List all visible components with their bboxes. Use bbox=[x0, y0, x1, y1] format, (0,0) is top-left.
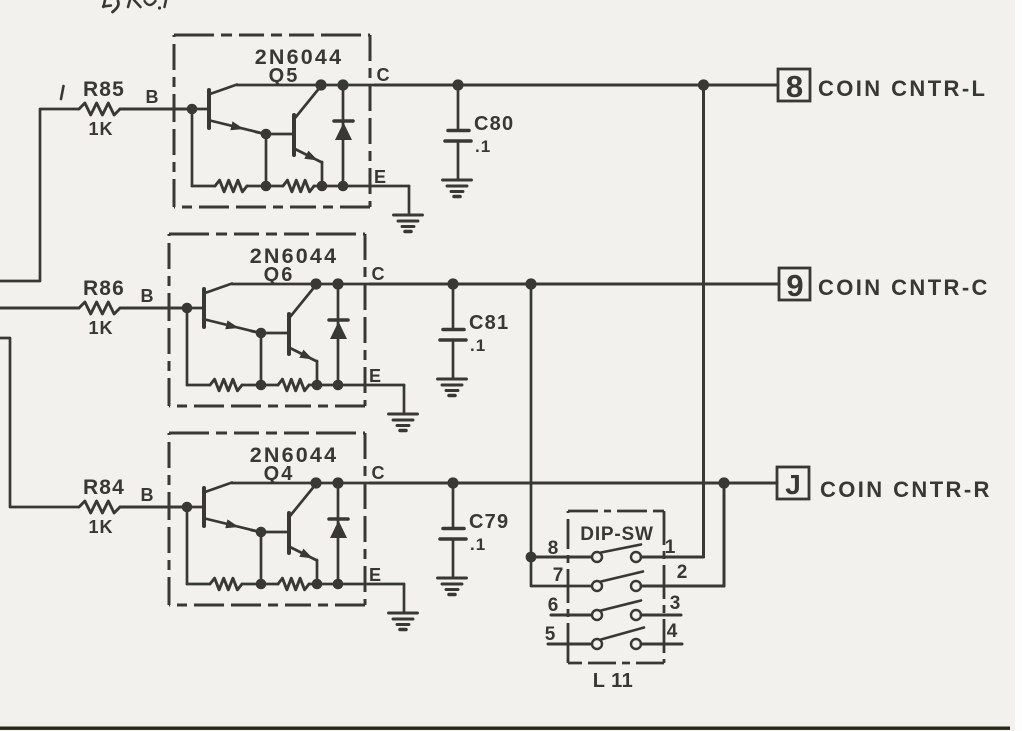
switch lever row pin 7-2 bbox=[601, 572, 643, 582]
diode internal to Q6 (cathode to collector) bbox=[329, 284, 348, 385]
switch lever row pin 5-4 bbox=[601, 628, 644, 640]
switch lever row pin 6-3 bbox=[601, 601, 641, 611]
capacitor C80 bbox=[445, 85, 471, 179]
terminal box 9 bbox=[779, 268, 810, 300]
svg-text:5: 5 bbox=[545, 624, 556, 645]
svg-text:9: 9 bbox=[786, 268, 803, 303]
node internal junction of Q6 bbox=[256, 328, 267, 339]
node diode top on C rail of Q6 bbox=[332, 278, 343, 289]
ground symbol at emitter of Q4 bbox=[389, 613, 418, 630]
svg-text:C: C bbox=[377, 65, 390, 85]
switch pole contact row pin 5 bbox=[592, 639, 602, 649]
node junction DIP pin 8 wire bbox=[526, 552, 537, 563]
wire from B node down to internal emitter rail of Q4 bbox=[186, 507, 189, 584]
svg-text:2: 2 bbox=[677, 562, 688, 583]
wire Q5 collector rail to terminal 8 bbox=[375, 84, 778, 87]
svg-text:.1: .1 bbox=[475, 137, 491, 156]
wire DIP switch pin 6 lead bbox=[551, 614, 592, 617]
node diode top on C rail of Q4 bbox=[332, 477, 343, 488]
node junction of COIN CNTR-L rail with DIP pin 1 riser bbox=[698, 79, 709, 90]
transistor Q6 first stage (input BJT) bbox=[204, 284, 258, 333]
node second emitter on E rail of Q5 bbox=[317, 181, 328, 192]
darlington package outline Q5 (dash-dot box) bbox=[174, 35, 370, 207]
node second collector on C rail of Q6 bbox=[310, 278, 321, 289]
svg-text:4: 4 bbox=[667, 621, 678, 642]
svg-text:COIN CNTR-R: COIN CNTR-R bbox=[820, 477, 992, 502]
schematic sheet bottom border line bbox=[0, 727, 1010, 730]
wire DIP switch pin 3 lead bbox=[641, 614, 681, 617]
wire internal collector rail of Q6 bbox=[232, 283, 370, 286]
node on emitter rail below junction of Q5 bbox=[261, 181, 272, 192]
svg-text:7: 7 bbox=[553, 565, 564, 586]
wire R84 to base node of Q4 bbox=[120, 506, 187, 509]
transistor Q5 first stage (input BJT) bbox=[209, 85, 263, 134]
switch pole contact row pin 8 bbox=[592, 552, 602, 562]
wire E pin down to ground of Q4 bbox=[403, 584, 406, 612]
node diode top on C rail of Q5 bbox=[337, 79, 348, 90]
DIP switch L11 outline (dash-dot box) bbox=[568, 511, 664, 663]
wire emitter rail to E pin exit of Q6 bbox=[309, 384, 404, 387]
wire input net to R86 (from left edge) bbox=[0, 307, 79, 310]
ground symbol below capacitor C79 bbox=[438, 578, 467, 595]
svg-text:1: 1 bbox=[665, 537, 676, 558]
node B junction of Q6 bbox=[182, 303, 193, 314]
wire internal emitter rail left segment of Q5 bbox=[192, 185, 215, 188]
node second collector on C rail of Q4 bbox=[310, 477, 321, 488]
wire riser from DIP switch pin 2 up to COIN CNTR-R net bbox=[723, 483, 726, 586]
wire internal emitter rail left segment of Q4 bbox=[187, 583, 210, 586]
capacitor C81 top connection node bbox=[447, 278, 458, 289]
svg-text:.1: .1 bbox=[470, 336, 486, 355]
capacitor C80 top connection node bbox=[452, 79, 463, 90]
node B junction of Q5 bbox=[187, 104, 198, 115]
wire from B node down to internal emitter rail of Q6 bbox=[186, 308, 189, 385]
transistor Q6 second stage (output BJT) bbox=[289, 285, 317, 362]
node internal junction of Q5 bbox=[261, 129, 272, 140]
svg-text:E: E bbox=[374, 167, 386, 187]
wire node to second base of Q4 bbox=[261, 531, 289, 534]
wire E pin down to ground of Q6 bbox=[403, 385, 406, 413]
switch pole contact row pin 6 bbox=[592, 610, 602, 620]
node on emitter rail below junction of Q6 bbox=[256, 380, 267, 391]
switch pole contact row pin 7 bbox=[592, 581, 602, 591]
svg-text:C81: C81 bbox=[469, 312, 509, 334]
darlington package outline Q6 (dash-dot box) bbox=[169, 234, 365, 406]
resistor R85 bbox=[79, 103, 120, 115]
node diode bottom on E rail of Q6 bbox=[333, 380, 344, 391]
wire input net to R84 (from left edge, down then right) bbox=[0, 338, 79, 507]
svg-text:B: B bbox=[141, 286, 154, 306]
wire emitter of first stage to node of Q6 bbox=[251, 331, 261, 333]
wire emitter rail middle segment of Q5 bbox=[247, 185, 283, 188]
wire Q4 collector rail to terminal J bbox=[370, 482, 777, 485]
svg-text:DIP-SW: DIP-SW bbox=[580, 524, 653, 545]
wire E pin down to ground of Q5 bbox=[408, 186, 411, 214]
resistor internal base-emitter resistor 1 of Q5 bbox=[215, 180, 247, 192]
resistor internal base-emitter resistor 2 of Q6 bbox=[278, 379, 309, 391]
wire DIP switch pin 8 lead bbox=[531, 556, 592, 559]
wire second emitter down to rail of Q6 bbox=[316, 361, 319, 385]
svg-text:1K: 1K bbox=[88, 318, 113, 338]
ground symbol at emitter of Q6 bbox=[389, 414, 418, 431]
resistor R84 bbox=[79, 501, 120, 513]
resistor internal base-emitter resistor 1 of Q6 bbox=[210, 379, 242, 391]
svg-text:B: B bbox=[146, 87, 159, 107]
transistor Q4 first stage (input BJT) bbox=[204, 483, 258, 532]
wire riser from DIP switch pin 1 up to COIN CNTR-L net bbox=[702, 85, 705, 557]
wire emitter of first stage to node of Q5 bbox=[256, 132, 266, 134]
node second emitter on E rail of Q6 bbox=[312, 380, 323, 391]
node diode bottom on E rail of Q5 bbox=[338, 181, 349, 192]
wire second emitter down to rail of Q4 bbox=[316, 560, 319, 584]
diode internal to Q4 (cathode to collector) bbox=[329, 483, 348, 584]
node junction of COIN CNTR-C rail with DIP pin 8 drop bbox=[525, 278, 536, 289]
capacitor C79 top connection node bbox=[447, 477, 458, 488]
wire base link inside Q5 bbox=[192, 108, 209, 111]
ground symbol below capacitor C80 bbox=[443, 180, 472, 197]
wire DIP switch pin 4 lead bbox=[641, 643, 682, 646]
wire node down to emitter rail of Q5 bbox=[265, 134, 268, 186]
resistor internal base-emitter resistor 1 of Q4 bbox=[210, 578, 242, 590]
resistor R86 bbox=[79, 302, 120, 314]
cut-off handwritten text at top (bottoms of letters) bbox=[103, 0, 166, 12]
svg-text:8: 8 bbox=[548, 538, 559, 559]
resistor internal base-emitter resistor 2 of Q4 bbox=[278, 578, 309, 590]
svg-text:3: 3 bbox=[670, 593, 681, 614]
switch throw contact row pin 2 bbox=[631, 581, 641, 591]
switch lever row pin 8-1 bbox=[601, 545, 641, 553]
svg-text:1K: 1K bbox=[88, 517, 113, 537]
wire emitter of first stage to node of Q4 bbox=[251, 530, 261, 532]
wire node down to emitter rail of Q6 bbox=[260, 333, 263, 385]
wire internal emitter rail left segment of Q6 bbox=[187, 384, 210, 387]
wire from B node down to internal emitter rail of Q5 bbox=[191, 109, 194, 186]
wire internal collector rail of Q4 bbox=[232, 482, 370, 485]
node second collector on C rail of Q5 bbox=[315, 79, 326, 90]
svg-text:J: J bbox=[785, 469, 801, 500]
wire node down to emitter rail of Q4 bbox=[260, 532, 263, 584]
node junction of COIN CNTR-R rail with DIP pin 2 riser bbox=[718, 477, 729, 488]
wire emitter rail middle segment of Q4 bbox=[242, 583, 278, 586]
switch throw contact row pin 1 bbox=[631, 552, 641, 562]
svg-text:8: 8 bbox=[786, 69, 803, 104]
wire input net to R85 (from left edge, up to R85 row) bbox=[0, 109, 79, 281]
node internal junction of Q4 bbox=[256, 527, 267, 538]
terminal box 8 bbox=[778, 69, 810, 101]
wire DIP switch pin 2 lead bbox=[641, 585, 724, 588]
wire DIP switch pin 5 lead bbox=[548, 643, 592, 646]
ground symbol below capacitor C81 bbox=[438, 379, 467, 396]
switch throw contact row pin 3 bbox=[631, 610, 641, 620]
svg-text:R86: R86 bbox=[83, 277, 125, 300]
svg-text:E: E bbox=[369, 366, 381, 386]
svg-text:C: C bbox=[372, 264, 385, 284]
wire emitter rail middle segment of Q6 bbox=[242, 384, 278, 387]
capacitor C79 bbox=[440, 483, 466, 577]
svg-text:R85: R85 bbox=[83, 78, 125, 101]
diode internal to Q5 (cathode to collector) bbox=[334, 85, 353, 186]
wire Q6 collector rail to terminal 9 bbox=[370, 283, 779, 286]
terminal box J bbox=[777, 467, 809, 499]
paper right edge white strip bbox=[1015, 0, 1022, 731]
wire base link inside Q6 bbox=[187, 307, 204, 310]
wire internal collector rail of Q5 bbox=[237, 84, 375, 87]
wire R85 to base node of Q5 bbox=[120, 108, 192, 111]
wire node to second base of Q5 bbox=[266, 133, 294, 136]
svg-text:COIN CNTR-C: COIN CNTR-C bbox=[818, 275, 990, 300]
svg-text:C: C bbox=[372, 463, 385, 483]
wire emitter rail to E pin exit of Q4 bbox=[309, 583, 404, 586]
wire base link inside Q4 bbox=[187, 506, 204, 509]
wire second emitter down to rail of Q5 bbox=[321, 162, 324, 186]
svg-text:C79: C79 bbox=[469, 511, 509, 533]
wire R86 to base node of Q6 bbox=[120, 307, 187, 310]
svg-text:COIN CNTR-L: COIN CNTR-L bbox=[818, 76, 987, 101]
darlington package outline Q4 (dash-dot box) bbox=[169, 433, 365, 605]
ground symbol at emitter of Q5 bbox=[394, 215, 423, 232]
capacitor C81 bbox=[440, 284, 466, 378]
svg-text:6: 6 bbox=[548, 595, 559, 616]
svg-text:1K: 1K bbox=[88, 119, 113, 139]
transistor Q4 second stage (output BJT) bbox=[289, 484, 317, 561]
node B junction of Q4 bbox=[182, 502, 193, 513]
stray tick mark bbox=[61, 86, 64, 99]
wire drop from COIN CNTR-C net down to DIP switch pins 8 and 7 bbox=[531, 284, 592, 586]
node second emitter on E rail of Q4 bbox=[312, 579, 323, 590]
resistor internal base-emitter resistor 2 of Q5 bbox=[283, 180, 314, 192]
svg-text:C80: C80 bbox=[474, 113, 514, 135]
node on emitter rail below junction of Q4 bbox=[256, 579, 267, 590]
transistor Q5 second stage (output BJT) bbox=[294, 86, 322, 163]
wire node to second base of Q6 bbox=[261, 332, 289, 335]
wire emitter rail to E pin exit of Q5 bbox=[314, 185, 409, 188]
svg-text:E: E bbox=[369, 565, 381, 585]
svg-text:.1: .1 bbox=[470, 535, 486, 554]
switch throw contact row pin 4 bbox=[631, 639, 641, 649]
wire DIP switch pin 1 lead bbox=[641, 556, 704, 559]
svg-text:L 11: L 11 bbox=[593, 670, 634, 692]
svg-text:R84: R84 bbox=[83, 476, 125, 499]
node diode bottom on E rail of Q4 bbox=[333, 579, 344, 590]
svg-text:B: B bbox=[141, 485, 154, 505]
